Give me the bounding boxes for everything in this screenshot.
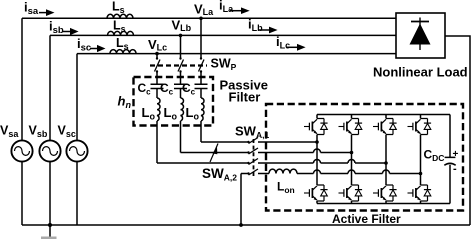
svg-text:Active Filter: Active Filter <box>332 212 401 226</box>
svg-text:Filter: Filter <box>229 89 261 104</box>
svg-text:-: - <box>453 163 457 175</box>
svg-text:+: + <box>453 149 459 160</box>
svg-text:Nonlinear Load: Nonlinear Load <box>373 65 468 80</box>
